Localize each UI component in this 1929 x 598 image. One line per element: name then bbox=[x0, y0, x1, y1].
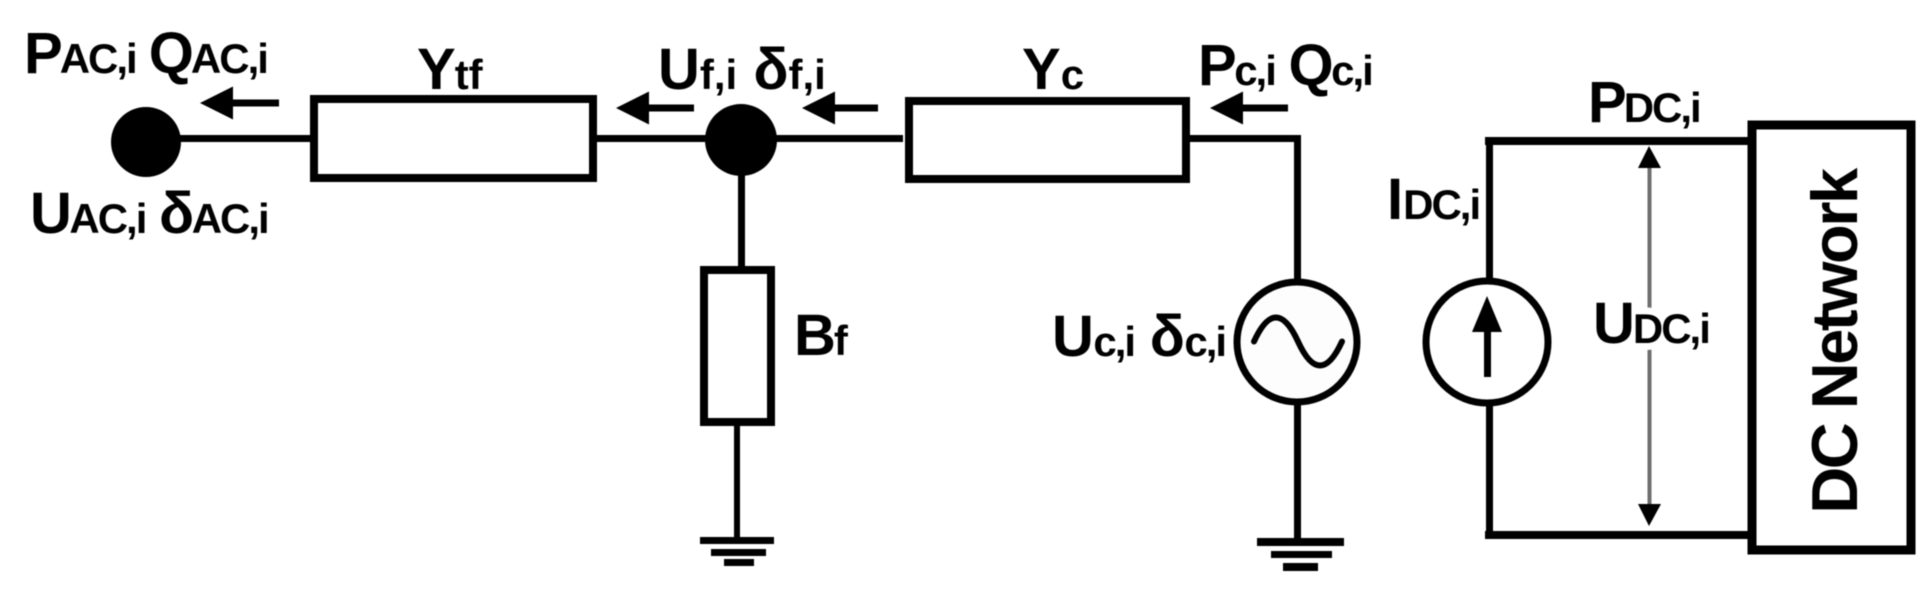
wire corner down to converter source bbox=[1294, 135, 1301, 281]
arrow current direction left of Ytf bbox=[200, 87, 279, 120]
svg-text:UAC,i δAC,i: UAC,i δAC,i bbox=[30, 181, 268, 246]
resistor Ytf bbox=[314, 99, 593, 178]
current source arrow bbox=[1472, 296, 1502, 377]
DC loop left wire lower bbox=[1486, 403, 1493, 539]
current source IDC bbox=[1426, 281, 1548, 403]
ground under Bf bbox=[700, 537, 774, 566]
DC Network box bbox=[1752, 125, 1911, 550]
node f (filled circle) bbox=[705, 104, 777, 176]
svg-text:Pc,i Qc,i: Pc,i Qc,i bbox=[1198, 33, 1372, 98]
svg-text:PAC,i QAC,i: PAC,i QAC,i bbox=[24, 21, 267, 86]
node AC bus (filled circle) bbox=[111, 107, 181, 177]
DC loop left wire upper bbox=[1486, 137, 1493, 282]
wire Ytf to node f bbox=[597, 135, 709, 142]
svg-text:Bf: Bf bbox=[794, 303, 849, 368]
wire Yc to corner bbox=[1186, 135, 1300, 142]
wire Bf to ground bbox=[734, 422, 740, 538]
DC loop top wire bbox=[1485, 137, 1753, 145]
arrow left of node f bbox=[616, 92, 694, 125]
DC loop bottom wire bbox=[1485, 531, 1753, 539]
shunt Bf bbox=[704, 270, 771, 422]
resistor Yc bbox=[909, 101, 1186, 179]
arrow converter current bbox=[1210, 92, 1288, 125]
wire AC bus to Ytf bbox=[175, 135, 313, 142]
ground under source bbox=[1257, 538, 1344, 571]
svg-text:Yc: Yc bbox=[1022, 37, 1084, 102]
voltage measurement double arrow UDC bbox=[1638, 146, 1661, 526]
svg-text:IDC,i: IDC,i bbox=[1387, 167, 1479, 232]
AC voltage source U1 bbox=[1237, 282, 1357, 402]
vertical wire node f to Bf bbox=[738, 170, 745, 270]
svg-text:Ytf: Ytf bbox=[417, 37, 484, 102]
svg-text:Uc,i δc,i: Uc,i δc,i bbox=[1052, 304, 1225, 369]
wire node f to Yc bbox=[773, 135, 903, 142]
sine wave inside source bbox=[1254, 318, 1342, 366]
svg-text:PDC,i: PDC,i bbox=[1588, 70, 1700, 135]
wire source to ground bbox=[1294, 402, 1301, 540]
svg-text:Uf,i δf,i: Uf,i δf,i bbox=[658, 37, 826, 102]
svg-text:DC Network: DC Network bbox=[1798, 167, 1871, 514]
arrow right of node f bbox=[802, 92, 878, 125]
